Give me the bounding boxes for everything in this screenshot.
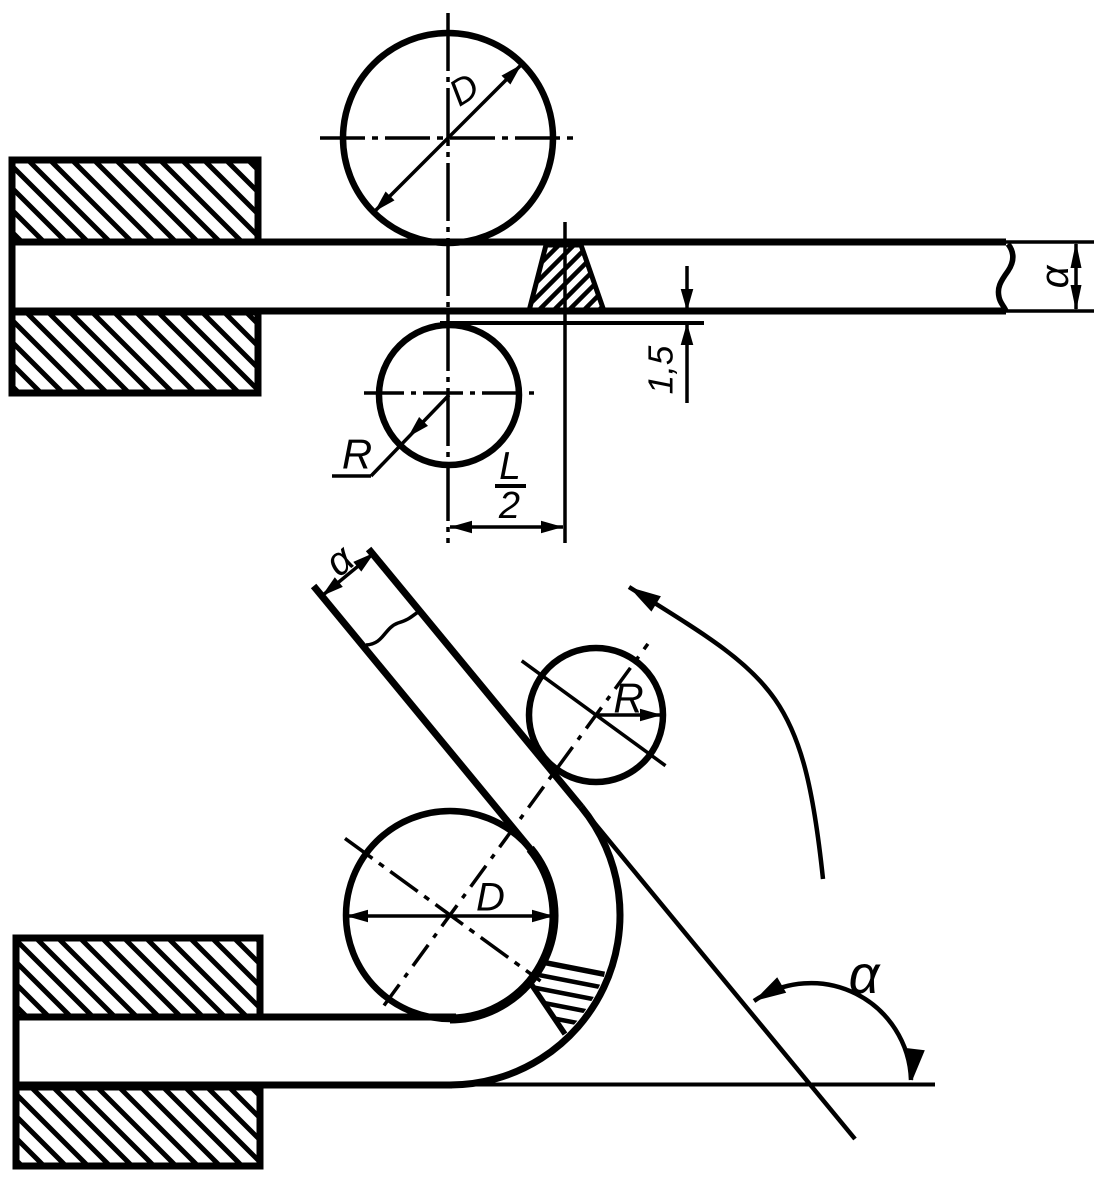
svg-text:α: α	[849, 945, 882, 1005]
svg-text:2: 2	[498, 485, 520, 527]
svg-text:α: α	[1033, 264, 1077, 288]
svg-text:R: R	[613, 675, 643, 722]
svg-text:D: D	[476, 876, 505, 920]
svg-text:L: L	[499, 445, 521, 488]
svg-text:R: R	[342, 431, 372, 478]
svg-text:1,5: 1,5	[642, 345, 681, 394]
